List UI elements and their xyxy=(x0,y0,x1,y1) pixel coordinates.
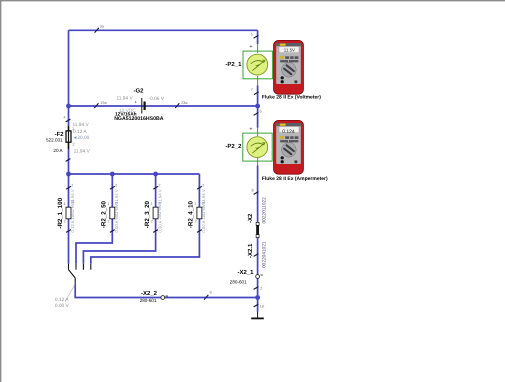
svg-text:Fluke 28 II Ex (Voltmeter): Fluke 28 II Ex (Voltmeter) xyxy=(262,95,321,101)
svg-text:-P2_1: -P2_1 xyxy=(225,61,242,68)
svg-text:NGA5120016HS0BA: NGA5120016HS0BA xyxy=(114,116,164,122)
svg-text:11.94 V: 11.94 V xyxy=(201,189,206,203)
svg-text:0022011022: 0022011022 xyxy=(262,197,268,224)
svg-text:18: 18 xyxy=(260,305,264,309)
svg-text:2: 2 xyxy=(73,143,75,147)
svg-text:4: 4 xyxy=(64,116,66,120)
svg-text:-0.06 V: -0.06 V xyxy=(149,96,165,102)
svg-text:1: 1 xyxy=(63,202,65,206)
svg-text:100Ω 6W8: 100Ω 6W8 xyxy=(70,199,75,220)
svg-text:Fluke 28 II Ex (Ampermeter): Fluke 28 II Ex (Ampermeter) xyxy=(262,176,328,182)
svg-text:-X2.1: -X2.1 xyxy=(247,243,254,258)
svg-text:-X2_2: -X2_2 xyxy=(141,290,158,297)
svg-text:11.94 V: 11.94 V xyxy=(117,96,134,102)
svg-text:7: 7 xyxy=(251,88,253,92)
svg-text:0.00 A: 0.00 A xyxy=(201,220,206,232)
svg-text:2: 2 xyxy=(260,287,262,291)
svg-text:2: 2 xyxy=(71,183,73,187)
svg-text:12 VDC: 12 VDC xyxy=(119,108,136,114)
svg-text:6: 6 xyxy=(260,110,262,114)
svg-text:11.94 V: 11.94 V xyxy=(73,122,90,128)
svg-text:23a: 23a xyxy=(181,101,188,105)
svg-text:8: 8 xyxy=(252,189,254,193)
svg-text:◄20.00: ◄20.00 xyxy=(73,135,90,141)
svg-text:0.00 A: 0.00 A xyxy=(157,220,162,232)
svg-text:0.12 A: 0.12 A xyxy=(70,220,75,232)
svg-text:0022041021: 0022041021 xyxy=(262,241,268,268)
svg-text:280-601: 280-601 xyxy=(140,298,157,303)
svg-text:1: 1 xyxy=(72,127,74,131)
svg-text:2: 2 xyxy=(195,220,197,224)
svg-text:19a: 19a xyxy=(100,101,107,105)
svg-text:2: 2 xyxy=(151,220,153,224)
svg-text:0.00 A: 0.00 A xyxy=(114,220,119,232)
svg-text:522.031: 522.031 xyxy=(46,137,63,142)
svg-text:2: 2 xyxy=(115,183,117,187)
svg-text:0.12 A: 0.12 A xyxy=(73,129,87,135)
svg-text:2: 2 xyxy=(158,183,160,187)
svg-text:11.94 V: 11.94 V xyxy=(157,189,162,203)
svg-text:-P2_2: -P2_2 xyxy=(225,143,242,150)
svg-text:2: 2 xyxy=(202,183,204,187)
svg-text:10Ω 6W8: 10Ω 6W8 xyxy=(201,201,206,219)
svg-text:5: 5 xyxy=(251,33,253,37)
svg-text:-G2: -G2 xyxy=(134,88,145,95)
svg-text:280-601: 280-601 xyxy=(230,279,247,284)
svg-text:-X2_1: -X2_1 xyxy=(238,269,255,276)
svg-text:11.94 V: 11.94 V xyxy=(114,189,119,203)
svg-text:-X2: -X2 xyxy=(247,213,254,223)
svg-text:1: 1 xyxy=(194,202,196,206)
svg-text:11.5V: 11.5V xyxy=(284,48,295,53)
svg-text:20Ω 6W8: 20Ω 6W8 xyxy=(157,201,162,219)
svg-text:+: + xyxy=(134,100,137,105)
svg-text:2: 2 xyxy=(107,220,109,224)
svg-text:2: 2 xyxy=(64,220,66,224)
svg-text:11.94 V: 11.94 V xyxy=(74,149,91,155)
svg-text:1: 1 xyxy=(151,202,153,206)
svg-text:9: 9 xyxy=(210,291,212,295)
svg-text:0.00 V: 0.00 V xyxy=(55,303,70,309)
svg-text:0.124: 0.124 xyxy=(282,129,295,135)
svg-text:1: 1 xyxy=(107,202,109,206)
svg-text:+: + xyxy=(249,126,252,132)
svg-text:+: + xyxy=(249,44,252,50)
svg-text:20 A: 20 A xyxy=(53,148,63,153)
svg-text:50Ω 6W8: 50Ω 6W8 xyxy=(114,201,119,219)
svg-text:0.12 A: 0.12 A xyxy=(55,297,69,303)
